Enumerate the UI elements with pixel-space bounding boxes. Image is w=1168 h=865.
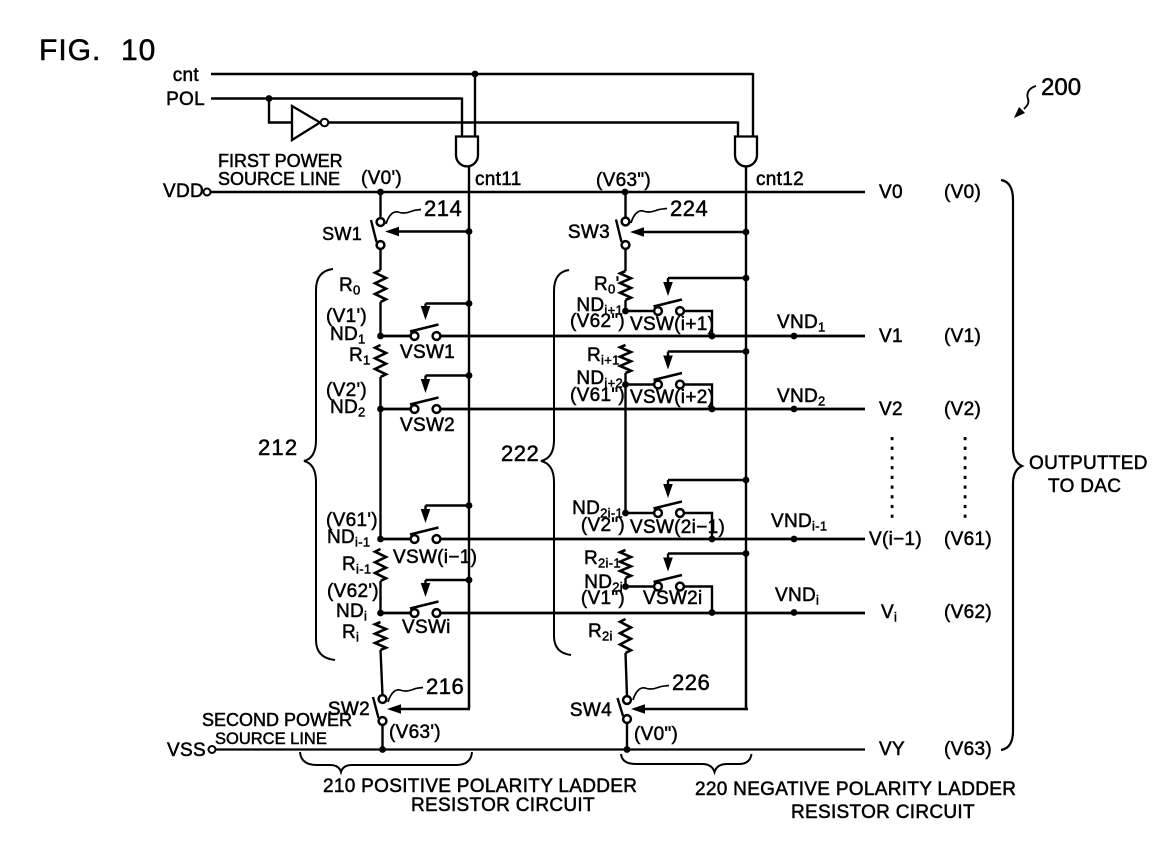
svg-text:216: 216 [426,674,464,699]
brace 220 negative ladder [621,754,752,772]
svg-text:POL: POL [166,89,205,110]
control wire VSW(i-1) [426,504,470,506]
node NDi-1 [377,536,384,543]
svg-text:VSW(i−1): VSW(i−1) [393,547,477,568]
wire switch VSW(i+1) to output [684,311,713,336]
svg-text:cnt12: cnt12 [756,169,804,190]
brace 222 [541,270,571,655]
svg-text:SECOND POWER: SECOND POWER [202,710,352,730]
wire cnt to AND1 [474,74,476,138]
control wire VSW2 [426,374,470,376]
svg-text:cnt: cnt [173,65,200,86]
svg-text:V0: V0 [879,182,903,203]
output line V1 [381,335,412,338]
svg-text:NDi: NDi [336,601,367,624]
wire VSS / VY line [216,748,866,750]
junction POL branch [266,95,273,102]
wire AND1 output cnt11 vertical [468,166,470,709]
control wire VSW1 [426,302,470,304]
control wire VSWi [426,579,470,581]
wire R1 to ND2 [379,377,381,409]
svg-text:220 NEGATIVE POLARITY LADDER: 220 NEGATIVE POLARITY LADDER [695,779,1016,800]
svg-text:(V61"): (V61") [570,385,625,406]
control arrow SW3 from cnt12 [640,231,746,233]
svg-text:(V63): (V63) [944,739,992,760]
svg-text:TO DAC: TO DAC [1048,476,1121,497]
svg-text:(V62"): (V62") [570,311,625,332]
junction VY right ladder [624,746,631,753]
svg-text:VNDi: VNDi [775,585,819,608]
svg-text:VSW(i+2): VSW(i+2) [630,387,714,408]
switch VSW(2i-1) [654,502,684,517]
brace outputs to DAC [1001,180,1022,750]
junction cnt branch [472,71,479,78]
resistor R2i-1 [620,550,631,578]
AND gate G1 (cnt11) [456,137,478,167]
resistor R0 [375,270,386,302]
svg-text:(V1): (V1) [944,326,981,347]
node ND2i [622,583,629,590]
wire switch VSW2i to output [684,587,713,613]
svg-text:VDD: VDD [163,181,204,202]
wire POL to AND1 [461,98,463,138]
svg-text:(V0'): (V0') [361,168,402,189]
wire POL to inverter [269,99,291,123]
svg-text:(V62): (V62) [944,602,992,623]
wire AND2 output cnt12 vertical [745,166,747,709]
svg-text:214: 214 [424,196,462,221]
AND gate G2 (cnt12) [735,137,757,167]
wire R2i-1 to ND2i [624,578,626,587]
control arrow SW2 from cnt11 [469,580,470,709]
control arrow SW1 from cnt11 [395,230,469,232]
svg-text:(V62'): (V62') [327,581,379,602]
wire ND2i-1 to switch [626,512,655,514]
node ND2 [377,406,384,413]
wire NDi+2 to switch [626,383,655,385]
switch VSW2 [410,398,440,413]
svg-text:SOURCE LINE: SOURCE LINE [218,169,340,189]
svg-text:cnt11: cnt11 [475,169,522,190]
svg-text:(V2"): (V2") [581,515,625,536]
wire SW1 to R0 [379,248,381,270]
svg-text:SW3: SW3 [568,222,610,243]
resistor Ri-1 [375,549,386,581]
node ND1 [377,333,384,340]
wire Ri-1 to NDi [379,581,381,613]
switch VSW(i+1) [654,300,684,315]
wire Ri to SW2 [381,650,383,696]
switch SW2 [373,695,386,725]
wire switch VSW(2i-1) to output [684,513,713,539]
wire inverter output to AND2 [737,122,739,138]
svg-text:(V2): (V2) [944,399,981,420]
resistor Ri+1 [620,345,631,373]
node NDi+2 [622,381,629,388]
svg-text:200: 200 [1041,74,1081,101]
svg-text:VY: VY [879,739,905,760]
wire Ri+1 to NDi+2 [624,373,626,385]
wire NDi+2 down to ND2i-1 [624,385,626,514]
svg-text:V2: V2 [879,399,903,420]
wire switch VSW(i+2) to output [684,385,713,410]
switch VSW1 [410,325,440,340]
svg-text:222: 222 [501,441,539,466]
output line V(i-1) [381,538,412,541]
svg-text:(V0): (V0) [944,182,981,203]
svg-text:224: 224 [670,196,708,221]
svg-text:VSWi: VSWi [402,617,451,638]
svg-text:OUTPUTTED: OUTPUTTED [1029,453,1148,474]
wire VDD / V0 line [211,191,866,193]
wire R0 to ND1 [379,302,381,336]
resistor R2i [620,619,631,653]
svg-text:VSW1: VSW1 [400,342,455,363]
junction VDD left ladder [377,189,384,196]
svg-text:FIRST POWER: FIRST POWER [218,151,343,171]
wire cnt horizontal [211,73,753,75]
svg-text:SW4: SW4 [570,700,612,721]
junction VDD right ladder [622,189,629,196]
svg-text:RESISTOR CIRCUIT: RESISTOR CIRCUIT [411,795,595,816]
svg-text:VSW(i+1): VSW(i+1) [630,314,714,335]
brace 210 positive ladder [300,752,472,772]
control wire VSW(2i-1) [668,479,746,481]
wire V0 to SW3 [624,192,626,218]
inverter U1 [292,106,320,140]
svg-text:(V1"): (V1") [581,588,625,609]
resistor Ri [375,622,386,650]
wire R2i to SW4 [626,653,628,697]
wire ND2i to switch [626,585,655,587]
svg-text:(V63"): (V63") [596,170,651,191]
control wire VSW(i+1) [668,277,746,279]
svg-text:226: 226 [672,670,710,695]
svg-text:V1: V1 [879,326,903,347]
node ND2i-1 [622,510,629,517]
wire cnt to AND2 [752,73,754,138]
node NDi [377,610,384,617]
wire SW3 to R0' [624,248,626,271]
wire ND2 down to NDi-1 [379,409,381,539]
svg-text:VSW2i: VSW2i [643,588,703,609]
svg-text:SOURCE LINE: SOURCE LINE [215,730,327,748]
wire NDi+1 to switch [626,310,655,312]
control wire VSW(i+2) [668,350,746,352]
switch SW1 [371,218,384,249]
switch VSWi [410,602,440,617]
svg-text:VSS: VSS [167,740,206,761]
svg-text:(V63'): (V63') [389,722,441,743]
svg-text:FIG.10: FIG.10 [39,34,156,67]
switch SW4 [618,696,631,723]
wire inverter output [329,121,739,124]
wire VDD to SW1 [379,192,381,219]
switch VSW2i [654,575,684,590]
ellipsis dots output columns [891,437,894,440]
switch VSW(i-1) [410,528,440,543]
svg-text:R0': R0' [594,274,620,297]
switch VSW(i+2) [654,373,684,388]
svg-text:(V0"): (V0") [634,724,678,745]
svg-text:(V61): (V61) [944,529,992,550]
junction VSS left ladder [379,746,386,753]
wire SW2 to VSS [381,724,383,749]
svg-text:VSW2: VSW2 [400,415,455,436]
resistor R1 [375,345,386,377]
terminal VSS [209,746,216,753]
wire POL horizontal [211,97,462,99]
svg-text:210 POSITIVE POLARITY LADDER: 210 POSITIVE POLARITY LADDER [323,776,637,797]
svg-text:RESISTOR CIRCUIT: RESISTOR CIRCUIT [791,802,975,823]
output line V2 [381,408,412,411]
terminal VDD [204,189,211,196]
node NDi+1 [622,308,629,315]
control wire VSW2i [668,552,746,554]
svg-text:V(i−1): V(i−1) [869,529,922,550]
switch SW3 [616,218,629,249]
wire R0' to NDi+1 [624,300,626,311]
svg-text:212: 212 [258,435,298,460]
resistor R0' [620,271,631,300]
control arrow SW4 from cnt12 [746,556,748,709]
output line Vi [381,612,412,615]
brace 212 [304,269,335,660]
wire SW4 to VY [626,722,628,749]
svg-text:SW1: SW1 [322,224,362,244]
